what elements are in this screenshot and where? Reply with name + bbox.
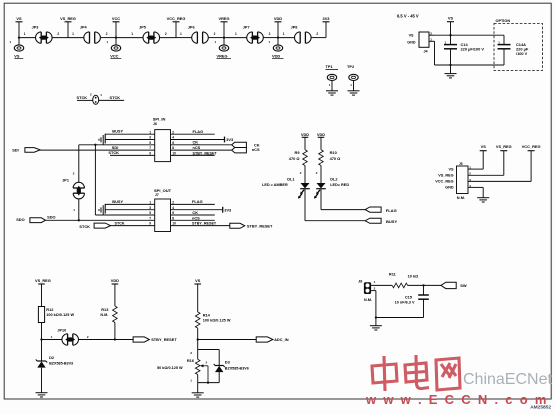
svg-text:JP8: JP8 xyxy=(291,25,298,29)
svg-text:JP7: JP7 xyxy=(243,25,250,29)
test point label VREG xyxy=(217,53,232,58)
ground (input block) xyxy=(445,74,457,78)
wire J8 pin2 stub xyxy=(371,290,376,292)
port SW tag xyxy=(441,282,456,288)
power tap VCC_REG (J5) xyxy=(522,144,541,181)
svg-text:ADC_IN: ADC_IN xyxy=(274,337,289,342)
svg-text:3V3: 3V3 xyxy=(224,207,232,212)
test point TP1 xyxy=(327,74,336,90)
wire J6 pin4 to 3V3 xyxy=(171,139,225,141)
svg-text:SPI_IN: SPI_IN xyxy=(153,117,166,122)
svg-text:SDO: SDO xyxy=(47,214,55,219)
svg-text:6: 6 xyxy=(172,211,174,215)
wire J5 pin2 to VS_REG xyxy=(468,174,504,176)
svg-text:JP1: JP1 xyxy=(62,179,69,183)
svg-text:2: 2 xyxy=(172,130,174,134)
port FLAG tag xyxy=(365,207,381,212)
svg-text:BZX585-B3V3: BZX585-B3V3 xyxy=(49,362,73,366)
watermark (decorative) xyxy=(372,355,460,391)
svg-text:7: 7 xyxy=(149,146,151,150)
wire D2 to ground xyxy=(41,368,43,393)
bar joining J6 pins 1-3 xyxy=(104,134,106,144)
jumper JP10 (closed) xyxy=(62,334,79,345)
wire jumper chain segment xyxy=(278,37,295,39)
test point VS xyxy=(10,38,24,52)
connector J4 box xyxy=(419,32,429,47)
wire jumper chain segment xyxy=(100,37,116,39)
node R13-rail xyxy=(114,338,116,340)
wire bottom rail xyxy=(435,64,505,66)
port STCK flag xyxy=(79,223,110,229)
resistor R12 (rect body) xyxy=(38,307,44,323)
jumper JP3 (closed) xyxy=(36,32,53,43)
resistor R11 xyxy=(392,283,407,288)
svg-text:GND: GND xyxy=(407,41,416,45)
wire node to ADC_IN port xyxy=(198,339,257,341)
port STBY_RESET arrow (bottom) xyxy=(133,337,149,342)
svg-text:10 kΩ: 10 kΩ xyxy=(408,274,419,279)
svg-text:10: 10 xyxy=(172,152,176,156)
wire J4 pin1 down xyxy=(434,41,436,65)
svg-text:VCC_REG: VCC_REG xyxy=(167,16,186,21)
junction node VREG xyxy=(223,36,225,38)
power tap 3V3 on jumper chain xyxy=(323,16,331,38)
svg-text:SDO: SDO xyxy=(16,217,24,222)
svg-text:5: 5 xyxy=(149,141,151,145)
wire J5 pin3 to VCC_REG xyxy=(468,180,531,182)
wire J7 pin3 xyxy=(105,209,155,211)
wire R9 to DL1 xyxy=(304,166,306,184)
capacitor C14A xyxy=(498,45,511,49)
svg-text:4: 4 xyxy=(172,136,174,140)
svg-text:BZX585-B3V6: BZX585-B3V6 xyxy=(225,367,249,371)
jumper STCK oval xyxy=(93,95,99,104)
zener diode D2 xyxy=(36,359,47,367)
svg-text:J7: J7 xyxy=(155,193,159,197)
test point label VS xyxy=(14,53,23,58)
svg-text:STBY_RESET: STBY_RESET xyxy=(192,222,217,226)
svg-text:STCK: STCK xyxy=(115,221,125,225)
wire bottom rail (R16/D3) xyxy=(198,382,220,384)
ground (J6 left, sideways) xyxy=(99,135,103,145)
port SDI flag xyxy=(12,147,40,152)
svg-text:R13: R13 xyxy=(101,307,109,312)
svg-text:STCK: STCK xyxy=(79,224,90,229)
wire J7 pin7 SDO xyxy=(46,219,155,221)
power tap VDD (R9) xyxy=(301,132,309,150)
svg-text:FLAG: FLAG xyxy=(386,208,397,213)
svg-text:1: 1 xyxy=(235,32,237,36)
ground TP1 xyxy=(326,91,338,95)
svg-text:VCC: VCC xyxy=(110,53,118,58)
svg-text:VS: VS xyxy=(195,278,201,283)
wire J6 pin5 xyxy=(79,144,155,146)
capacitor C14 xyxy=(444,45,457,49)
svg-text:VS: VS xyxy=(14,53,20,58)
connector J7 box xyxy=(155,199,171,232)
wire J6 pin3 xyxy=(105,139,155,141)
svg-text:1: 1 xyxy=(180,32,182,36)
svg-text:R9: R9 xyxy=(295,150,301,155)
jumper JP5 (closed) xyxy=(143,32,160,43)
svg-text:STCK: STCK xyxy=(110,95,121,100)
svg-text:GND: GND xyxy=(445,186,454,190)
power tap VDD (R10) xyxy=(317,132,325,150)
wire jumper chain segment xyxy=(224,37,247,39)
svg-text:VREG: VREG xyxy=(218,16,229,21)
wire J5 pin4 down xyxy=(482,187,484,197)
svg-text:1: 1 xyxy=(72,32,74,36)
svg-text:VS_REG: VS_REG xyxy=(438,174,453,178)
node wiper-rail xyxy=(207,381,209,383)
svg-text:STBY_RESET: STBY_RESET xyxy=(151,337,177,342)
svg-text:VDD: VDD xyxy=(317,132,325,137)
wire C14A bottom xyxy=(503,49,505,65)
wire bottom rail (J8) xyxy=(376,317,424,319)
wire J5 pin1 to VS xyxy=(468,168,483,170)
svg-text:OPTION: OPTION xyxy=(496,19,511,23)
resistor R10 xyxy=(319,150,324,166)
power tap VS on jumper chain xyxy=(16,16,23,38)
resistor R9 xyxy=(303,150,308,166)
wire R16 to rail xyxy=(197,375,199,383)
wire DL1 down xyxy=(304,189,306,221)
power tap VCC on jumper chain xyxy=(112,16,120,38)
wire node down to branch xyxy=(197,340,199,350)
wire J4 pin2 to C14A xyxy=(435,34,505,36)
svg-text:2: 2 xyxy=(165,32,167,36)
svg-text:AM25852: AM25852 xyxy=(530,405,551,411)
svg-text:VS_REG: VS_REG xyxy=(35,278,51,283)
svg-text:BUSY: BUSY xyxy=(386,219,397,224)
wire J5 pin4 right xyxy=(468,186,483,188)
label CK net (J6) xyxy=(193,140,200,145)
svg-text:3V3: 3V3 xyxy=(323,16,331,21)
svg-text:ChinaECNet: ChinaECNet xyxy=(463,371,552,388)
svg-text:VS: VS xyxy=(448,16,454,21)
connector J6 box xyxy=(155,130,171,162)
svg-text:DL2: DL2 xyxy=(330,177,338,182)
resistor R13 xyxy=(113,306,118,323)
wire jumper chain segment xyxy=(208,37,224,39)
pin 1 of J4 xyxy=(429,38,435,42)
test point VDD xyxy=(269,38,283,52)
power tap VS (J5) xyxy=(480,144,487,169)
svg-text:CK: CK xyxy=(193,140,199,145)
svg-text:D2: D2 xyxy=(49,355,55,360)
power tap VS_REG (J5) xyxy=(496,144,512,175)
node J8 gnd xyxy=(375,316,377,318)
svg-text:R14: R14 xyxy=(203,312,211,317)
svg-text:R16: R16 xyxy=(187,358,195,363)
wiper of R16 xyxy=(200,364,208,382)
power tap VREG on jumper chain xyxy=(218,16,229,38)
LED DL2 xyxy=(314,183,326,199)
ground (R16) xyxy=(192,393,204,397)
svg-text:J8: J8 xyxy=(358,279,362,283)
wire J7 pin6 CK stub xyxy=(171,214,215,216)
connector J8 xyxy=(364,282,371,294)
wire J6 pin7 SDI xyxy=(40,149,155,151)
svg-text:100 kΩ/0.125 W: 100 kΩ/0.125 W xyxy=(46,313,74,317)
test point TP2 xyxy=(349,74,358,90)
wire jumper chain segment xyxy=(311,37,326,39)
wire D3 down xyxy=(218,350,220,366)
wire FLAG to port xyxy=(321,209,365,211)
power bar 3V3 (J7) xyxy=(222,207,224,213)
svg-text:9: 9 xyxy=(149,222,151,226)
svg-text:2: 2 xyxy=(172,201,174,205)
jumper JP1 (vertical, closed) xyxy=(73,145,84,221)
svg-text:VS: VS xyxy=(409,34,414,38)
svg-text:STCK: STCK xyxy=(77,95,88,100)
svg-text:J6: J6 xyxy=(153,122,157,126)
svg-text:BUSY: BUSY xyxy=(112,129,123,134)
label TP1 xyxy=(326,64,339,69)
node J6 pin5 branch xyxy=(94,144,96,146)
svg-text:9: 9 xyxy=(149,152,151,156)
port SDO flag xyxy=(16,217,45,222)
port BUSY tag xyxy=(365,218,381,223)
svg-text:VS: VS xyxy=(449,167,455,171)
svg-text:TP2: TP2 xyxy=(347,64,355,69)
svg-text:50 kΩ/0.125 W: 50 kΩ/0.125 W xyxy=(157,366,183,370)
svg-text:8: 8 xyxy=(172,146,174,150)
power tap VS (bottom) xyxy=(194,278,201,312)
label TP2 xyxy=(347,64,355,69)
svg-text:N.M.: N.M. xyxy=(100,313,108,317)
power tap VS (top right) xyxy=(447,16,454,36)
svg-text:2: 2 xyxy=(57,32,59,36)
svg-text:470 Ω: 470 Ω xyxy=(330,156,341,161)
jumper JP4 (open) xyxy=(84,32,101,43)
jumper JP7 (closed) xyxy=(247,32,264,43)
wire R13 to rail xyxy=(114,323,116,340)
svg-text:JP10: JP10 xyxy=(57,329,66,333)
wire R11 to SW xyxy=(408,284,441,286)
junction node VCC xyxy=(115,36,117,38)
svg-text:D3: D3 xyxy=(225,360,231,365)
svg-text:nCS: nCS xyxy=(252,147,260,152)
svg-text:nCS: nCS xyxy=(193,145,201,150)
svg-text:LED = AMBER: LED = AMBER xyxy=(262,183,288,187)
label STBY_RESET net (J6) xyxy=(193,151,218,155)
wire jumper chain segment xyxy=(263,37,278,39)
capacitor C15 xyxy=(418,295,429,299)
svg-text:VCC_REG: VCC_REG xyxy=(522,144,541,149)
wire jumper chain segment xyxy=(19,37,36,39)
wire J7 pin2 FLAG stub xyxy=(171,203,215,205)
wire D3 to rail xyxy=(218,372,220,383)
power tap VS_REG (bottom) xyxy=(35,278,51,307)
LED DL1 xyxy=(298,183,310,199)
wire BUSY to port xyxy=(305,220,365,222)
svg-text:R12: R12 xyxy=(46,307,54,312)
connector J5 box xyxy=(457,166,469,194)
svg-text:VS: VS xyxy=(481,144,487,149)
svg-text:VS_REG: VS_REG xyxy=(60,16,76,21)
svg-text:N.M.: N.M. xyxy=(364,297,372,302)
wire J6 pin5 to J7 pin5 xyxy=(94,145,96,215)
svg-text:1: 1 xyxy=(149,130,151,134)
svg-text:VS_REG: VS_REG xyxy=(496,144,512,149)
wire STCK right xyxy=(99,99,124,101)
svg-text:TP1: TP1 xyxy=(326,64,334,69)
svg-text:3V3: 3V3 xyxy=(226,137,234,142)
svg-text:470 Ω: 470 Ω xyxy=(289,156,300,161)
svg-text:2: 2 xyxy=(269,32,271,36)
wire R12 to node xyxy=(41,323,43,340)
svg-text:2: 2 xyxy=(214,32,216,36)
test point label VCC xyxy=(110,53,121,58)
svg-text:JP3: JP3 xyxy=(32,25,39,29)
ground TP2 xyxy=(348,91,360,95)
svg-text:1: 1 xyxy=(149,201,151,205)
svg-text:VDD: VDD xyxy=(111,278,119,283)
wire C14A top xyxy=(503,35,505,44)
svg-text:220 µF/100 V: 220 µF/100 V xyxy=(461,47,485,52)
test point label VDD xyxy=(272,53,284,58)
wire J8 pin1 to R11 xyxy=(371,284,392,286)
power tap VCC_REG on jumper chain xyxy=(167,16,186,38)
wire jumper chain segment xyxy=(116,37,143,39)
svg-text:SW: SW xyxy=(460,283,467,288)
wire C14 to bottom rail xyxy=(450,49,452,65)
wire jumper chain segment xyxy=(68,37,84,39)
svg-text:BUSY: BUSY xyxy=(112,199,123,204)
dashed OPTION box xyxy=(494,24,543,71)
wire J6 pin6 CK xyxy=(171,144,232,146)
pin 2 of J4 xyxy=(429,31,435,35)
svg-text:VDD: VDD xyxy=(301,132,309,137)
jumper JP6 (open) xyxy=(192,32,209,43)
wire J7 pin5 xyxy=(95,214,154,216)
power bar 3V3 (J6) xyxy=(224,137,226,143)
port ADC_IN arrow xyxy=(256,337,273,342)
jumper JP8 (open) xyxy=(295,32,312,43)
svg-text:3: 3 xyxy=(149,206,151,210)
port CK/nCS double tag xyxy=(232,142,247,153)
svg-text:FLAG: FLAG xyxy=(193,129,204,134)
node R12/JP10/D2 xyxy=(40,338,42,340)
trimmer R16 xyxy=(195,359,200,374)
svg-text:7: 7 xyxy=(149,216,151,220)
node VS-C14 xyxy=(449,34,451,36)
svg-text:JP6: JP6 xyxy=(188,25,195,29)
svg-text:DL1: DL1 xyxy=(287,177,295,182)
wire J7 pin9 STCK xyxy=(111,225,155,227)
power tap VDD (bottom) xyxy=(111,278,119,306)
junction node VS xyxy=(18,36,20,38)
wire J6 pin2 FLAG stub xyxy=(171,133,215,135)
svg-text:JP5: JP5 xyxy=(139,25,146,29)
svg-text:2: 2 xyxy=(106,32,108,36)
svg-text:1: 1 xyxy=(24,32,26,36)
svg-text:/100 V: /100 V xyxy=(516,51,528,56)
resistor R14 xyxy=(195,312,200,328)
wire J6 pin10 STBY_RESET stub xyxy=(171,154,215,156)
wire to R16 xyxy=(197,350,199,360)
svg-text:LED= RED: LED= RED xyxy=(330,183,349,187)
svg-text:J5: J5 xyxy=(459,162,463,166)
ground (J5) xyxy=(477,198,489,202)
svg-text:N.M.: N.M. xyxy=(457,195,465,200)
ground (D2) xyxy=(36,393,48,397)
wire J6 pin8 nCS xyxy=(171,149,232,151)
svg-text:STBY_RESET: STBY_RESET xyxy=(247,223,273,228)
wire J7 pin1 BUSY xyxy=(105,203,155,205)
svg-text:nCS: nCS xyxy=(192,215,200,220)
power tap VDD on jumper chain xyxy=(274,16,282,38)
node SDO-JP1 xyxy=(78,219,80,221)
zener diode D3 xyxy=(214,364,225,372)
node C15 xyxy=(422,284,424,286)
test point VCC xyxy=(107,38,121,52)
wire DL2 down xyxy=(320,189,322,210)
svg-text:VDD: VDD xyxy=(274,16,282,21)
svg-text:4: 4 xyxy=(172,206,174,210)
svg-text:1: 1 xyxy=(283,32,285,36)
svg-text:6.5 V - 45 V: 6.5 V - 45 V xyxy=(397,13,419,18)
svg-text:w w w . E C C N . c o m: w w w . E C C N . c o m xyxy=(365,392,548,407)
wire jumper chain segment xyxy=(176,37,192,39)
wire JP10 to STBY_RESET port xyxy=(78,339,133,341)
label CK net (J7) xyxy=(192,210,199,215)
svg-text:VREG: VREG xyxy=(217,53,228,58)
wire to ground xyxy=(450,65,452,73)
svg-text:JP4: JP4 xyxy=(80,25,88,29)
svg-text:R11: R11 xyxy=(389,271,397,276)
svg-text:VCC_REG: VCC_REG xyxy=(435,180,453,184)
svg-text:R10: R10 xyxy=(330,150,337,155)
svg-text:VS: VS xyxy=(16,16,22,21)
node ADC_IN xyxy=(197,338,199,340)
port STBY_RESET arrow xyxy=(230,223,245,228)
svg-text:6: 6 xyxy=(172,141,174,145)
svg-text:VCC: VCC xyxy=(112,16,120,21)
wire VS down to C14 xyxy=(450,35,452,44)
svg-text:5: 5 xyxy=(149,211,151,215)
svg-text:3: 3 xyxy=(149,136,151,140)
svg-text:STCK: STCK xyxy=(108,150,119,155)
ground (J8) xyxy=(370,326,382,330)
wire J7 pin8 nCS stub xyxy=(171,219,215,221)
wire STCK left xyxy=(77,99,93,101)
wire J6 pin9 STCK stub xyxy=(110,154,155,156)
svg-text:CK: CK xyxy=(192,210,198,215)
wire node to JP10 xyxy=(42,339,63,341)
test point VREG xyxy=(215,38,229,52)
ground (J7 left, sideways) xyxy=(99,205,103,215)
node gnd rail xyxy=(449,64,451,66)
junction node VDD xyxy=(277,36,279,38)
wire to ground (J8) xyxy=(375,318,377,326)
wire branch to D3 xyxy=(198,349,220,351)
svg-text:2: 2 xyxy=(316,32,318,36)
svg-text:10: 10 xyxy=(172,222,176,226)
wire D2 up xyxy=(41,340,43,362)
svg-text:FLAG: FLAG xyxy=(192,199,203,204)
svg-text:8: 8 xyxy=(172,216,174,220)
wire rail to ground xyxy=(197,383,199,393)
wire J6 pin1 BUSY xyxy=(105,133,155,135)
wire jumper chain segment xyxy=(52,37,68,39)
wire J8 pin2 down xyxy=(375,291,377,318)
wire jumper chain segment xyxy=(159,37,176,39)
wire R10 to DL2 xyxy=(320,166,322,184)
svg-text:VDD: VDD xyxy=(272,53,280,58)
power tap VS_REG on jumper chain xyxy=(60,16,76,38)
